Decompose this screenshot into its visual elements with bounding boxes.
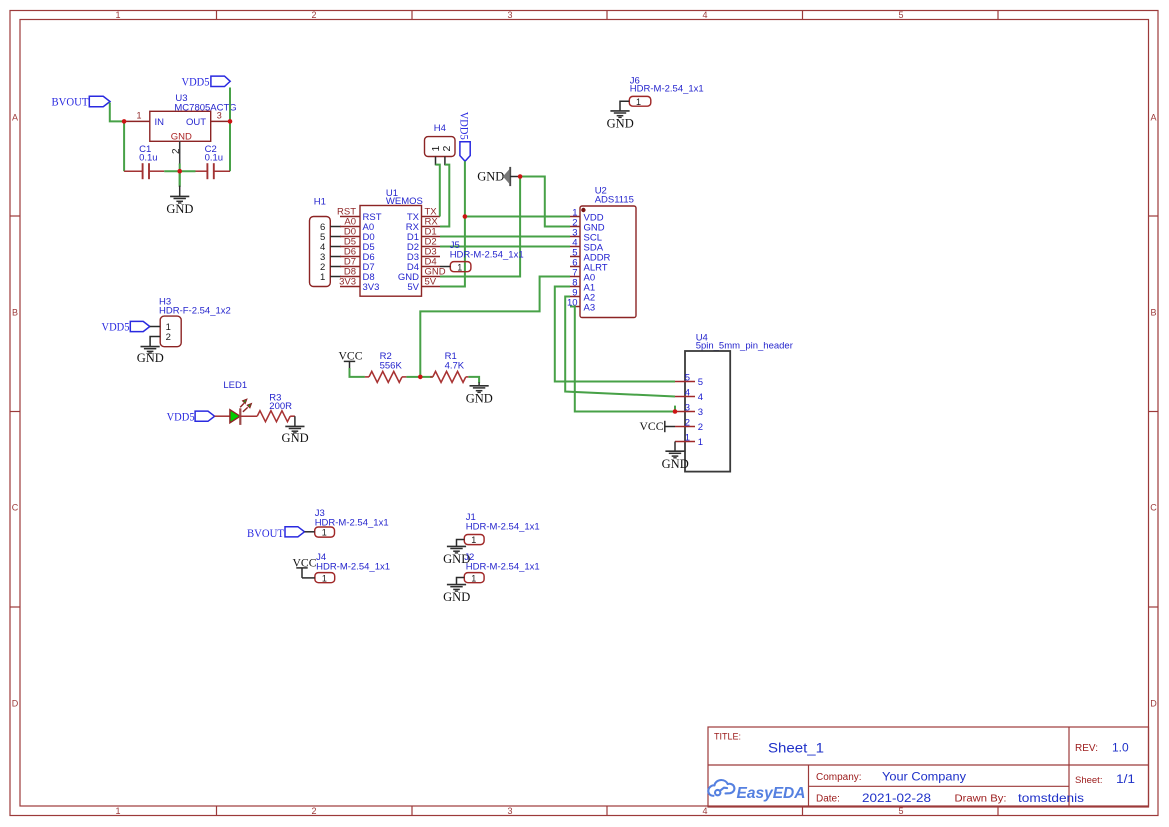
wire VDD5 flag down to U3.OUT and C2 xyxy=(229,88,231,172)
svg-text:Sheet:: Sheet: xyxy=(1075,775,1102,786)
svg-text:HDR-M-2.54_1x1: HDR-M-2.54_1x1 xyxy=(450,250,524,261)
H1 pin 3 xyxy=(320,252,341,263)
header J5 xyxy=(450,240,524,272)
svg-text:HDR-M-2.54_1x1: HDR-M-2.54_1x1 xyxy=(466,522,540,533)
svg-text:Sheet_1: Sheet_1 xyxy=(768,741,824,756)
svg-text:3V3: 3V3 xyxy=(363,282,380,293)
svg-text:IN: IN xyxy=(155,117,165,128)
svg-text:0.1u: 0.1u xyxy=(205,152,224,163)
junction node U4.3 xyxy=(673,409,678,414)
H1 pin 6 xyxy=(320,222,341,233)
svg-text:D: D xyxy=(12,699,19,709)
svg-text:1.0: 1.0 xyxy=(1112,740,1129,754)
wire rail down to GND flag xyxy=(179,171,181,196)
svg-text:4: 4 xyxy=(698,392,703,403)
junction node R1/R2/A0 xyxy=(418,375,423,380)
U2 pin stubs xyxy=(570,217,580,307)
wire U1.D1 to U2.SCL xyxy=(440,236,570,238)
junction node BVOUT/U3.IN xyxy=(122,119,127,124)
wire U3 pin2 to ground rail xyxy=(179,164,181,186)
svg-text:GND: GND xyxy=(607,116,634,130)
svg-text:VDD5: VDD5 xyxy=(458,112,472,140)
net flag BVOUT (U3 input) xyxy=(52,95,111,109)
wire VCC flag to J4.1 xyxy=(302,577,315,579)
header J6 xyxy=(629,76,703,107)
svg-text:2: 2 xyxy=(441,146,453,152)
junction node GND flag xyxy=(518,174,523,179)
module U1 WEMOS xyxy=(360,188,423,296)
svg-text:1: 1 xyxy=(685,432,690,443)
svg-text:2: 2 xyxy=(311,806,316,816)
svg-text:HDR-M-2.54_1x1: HDR-M-2.54_1x1 xyxy=(630,84,704,95)
header H4 xyxy=(425,123,456,156)
wire BVOUT flag to J3.1 xyxy=(305,531,315,533)
svg-text:Date:: Date: xyxy=(816,793,840,804)
svg-text:A3: A3 xyxy=(584,302,596,313)
net flag VCC (R2) xyxy=(339,348,363,369)
svg-text:1: 1 xyxy=(320,272,325,283)
wire H4.1 to U1.TX xyxy=(436,165,440,217)
net flag BVOUT (J3) xyxy=(247,526,305,540)
wire VDD5 flag down through junction to U1.5V xyxy=(440,161,465,286)
ground GND (U3/C1/C2) xyxy=(170,196,189,203)
ground GND (J6) xyxy=(610,111,629,118)
ground GND (J2) xyxy=(447,585,466,592)
wire H3.2 to GND xyxy=(150,337,160,347)
wire U2.A0 to R divider node xyxy=(420,277,570,377)
wire J6.1 to GND xyxy=(620,101,629,111)
wire C1 to GND junction xyxy=(164,170,195,172)
svg-text:A: A xyxy=(1150,113,1156,123)
net flag VDD5 (LED1) xyxy=(167,409,215,423)
svg-text:4: 4 xyxy=(702,806,707,816)
wire R2 to node xyxy=(406,376,420,378)
svg-text:1: 1 xyxy=(115,10,120,20)
wire VCC to R2 xyxy=(350,368,365,377)
wire GND flag to U1.GND xyxy=(440,177,520,277)
wire U1.D2 to U2.SDA xyxy=(440,246,570,248)
header H3 xyxy=(159,297,231,347)
U1 left pin number labels xyxy=(337,206,356,287)
svg-text:1: 1 xyxy=(322,528,327,538)
svg-text:4: 4 xyxy=(685,387,690,398)
svg-text:3: 3 xyxy=(685,402,690,413)
svg-text:1: 1 xyxy=(636,97,641,107)
svg-text:C: C xyxy=(1150,503,1157,513)
resistor R1 4.7K xyxy=(430,351,468,382)
svg-text:D: D xyxy=(1150,699,1157,709)
wire U1.D4 to J5.1 xyxy=(440,266,450,268)
svg-text:H1: H1 xyxy=(314,196,326,207)
U1 right pin number labels xyxy=(425,206,446,287)
net flag VDD5 (vertical, top) xyxy=(458,112,472,162)
H4 pin 2 xyxy=(441,146,453,166)
LED1 anode lead xyxy=(215,415,230,417)
svg-text:GND: GND xyxy=(137,351,164,365)
svg-text:2: 2 xyxy=(311,10,316,20)
svg-text:GND: GND xyxy=(662,457,689,471)
wire J2.1 to GND xyxy=(457,578,465,585)
svg-text:1: 1 xyxy=(136,111,141,121)
capacitor C1 0.1u xyxy=(124,144,164,179)
resistor R2 556K xyxy=(365,351,407,382)
svg-text:VCC: VCC xyxy=(640,419,664,433)
junction node U3.OUT/VDD5 xyxy=(228,119,233,124)
wire BVOUT node down to C1 xyxy=(123,121,125,171)
svg-text:BVOUT: BVOUT xyxy=(247,526,285,540)
svg-text:5pin_5mm_pin_header: 5pin_5mm_pin_header xyxy=(696,340,793,351)
svg-text:1: 1 xyxy=(471,573,476,583)
svg-text:HDR-M-2.54_1x1: HDR-M-2.54_1x1 xyxy=(316,561,390,572)
svg-text:GND: GND xyxy=(443,590,470,604)
header J3 xyxy=(315,508,389,538)
svg-text:2: 2 xyxy=(171,148,182,154)
U3 pin 1 xyxy=(124,111,150,122)
svg-text:HDR-M-2.54_1x1: HDR-M-2.54_1x1 xyxy=(466,561,540,572)
svg-text:2: 2 xyxy=(166,332,171,343)
net flag VCC (J4) xyxy=(293,555,317,578)
U1 left pin stubs xyxy=(340,217,360,287)
svg-text:C: C xyxy=(12,503,19,513)
ground GND (R1) xyxy=(470,386,489,393)
wire GND flag to U2.GND xyxy=(520,177,570,227)
header J2 xyxy=(464,552,539,584)
svg-text:VCC: VCC xyxy=(339,348,363,362)
H1 pin 4 xyxy=(320,242,341,253)
IC U2 ADS1115 xyxy=(580,185,636,317)
ground GND (J1) xyxy=(447,546,466,553)
U3 pin 3 xyxy=(211,111,230,122)
svg-text:1: 1 xyxy=(115,806,120,816)
wire U4.1 to GND xyxy=(674,442,676,452)
resistor R3 200R xyxy=(257,392,295,421)
svg-text:4: 4 xyxy=(702,10,707,20)
header J4 xyxy=(315,552,390,584)
svg-text:VDD5: VDD5 xyxy=(167,409,195,423)
H1 pin 1 xyxy=(320,272,341,283)
wire VDD5 junction to U2.VDD xyxy=(465,216,570,218)
regulator U3 MC7805ACTG xyxy=(150,93,237,142)
header J1 xyxy=(464,512,539,545)
svg-text:GND: GND xyxy=(171,132,192,143)
ground GND (R3) xyxy=(285,426,304,433)
H4 pin 1 xyxy=(430,146,442,166)
svg-text:1: 1 xyxy=(698,437,703,448)
U1 left pin names xyxy=(363,212,382,293)
junction node cap ground rail xyxy=(177,169,182,174)
svg-text:3: 3 xyxy=(507,806,512,816)
svg-text:5V: 5V xyxy=(407,282,419,293)
U2 pin names xyxy=(584,212,611,313)
svg-text:3V3: 3V3 xyxy=(339,276,356,287)
wire U2.A1 to U4.5 xyxy=(555,287,675,382)
wire H4.2 to U1.RX xyxy=(440,165,449,227)
svg-text:ADS1115: ADS1115 xyxy=(595,195,634,206)
svg-text:OUT: OUT xyxy=(186,117,206,128)
svg-text:Your Company: Your Company xyxy=(882,770,966,784)
svg-text:GND: GND xyxy=(466,392,493,406)
svg-text:5: 5 xyxy=(698,377,703,388)
svg-text:5: 5 xyxy=(898,806,903,816)
header H1 xyxy=(310,196,331,286)
wire U2.A2 to U4.4 xyxy=(565,297,675,397)
svg-text:HDR-F-2.54_1x2: HDR-F-2.54_1x2 xyxy=(159,306,231,317)
wire J1.1 to GND xyxy=(457,540,465,547)
svg-text:tomstdenis: tomstdenis xyxy=(1018,791,1084,805)
svg-text:B: B xyxy=(12,308,18,318)
header U4 5pin_5mm_pin_header xyxy=(685,332,793,471)
U2 pin number labels xyxy=(567,207,578,308)
svg-text:GND: GND xyxy=(282,431,309,445)
svg-text:2: 2 xyxy=(685,417,690,428)
svg-text:LED1: LED1 xyxy=(223,380,247,391)
ground flag GND (top, sideways) xyxy=(477,167,520,186)
svg-text:556K: 556K xyxy=(380,361,403,372)
U1 right pin stubs xyxy=(422,217,441,287)
svg-text:EasyEDA: EasyEDA xyxy=(737,785,806,802)
wire R1 to GND xyxy=(468,377,479,383)
ground GND (H3.2) xyxy=(141,347,160,354)
net flag VDD5 (U3 output) xyxy=(182,74,231,88)
U3 pin 2 xyxy=(171,141,182,165)
svg-text:5: 5 xyxy=(685,372,690,383)
wire BVOUT flag to node xyxy=(110,103,124,122)
svg-text:1: 1 xyxy=(471,535,476,545)
svg-text:5V: 5V xyxy=(425,276,437,287)
svg-text:GND: GND xyxy=(477,170,504,184)
svg-text:0.1u: 0.1u xyxy=(139,152,158,163)
svg-text:3: 3 xyxy=(698,407,703,418)
svg-text:3: 3 xyxy=(217,111,222,121)
svg-text:TITLE:: TITLE: xyxy=(714,732,741,742)
H1 pin 2 xyxy=(320,262,341,273)
svg-text:5: 5 xyxy=(898,10,903,20)
svg-text:1/1: 1/1 xyxy=(1116,774,1135,786)
net flag VDD5 (H3.1) xyxy=(102,320,150,334)
LED1 symbol xyxy=(230,399,252,425)
H1 pin 5 xyxy=(320,232,341,243)
wire R3 to GND xyxy=(294,416,296,426)
svg-text:Company:: Company: xyxy=(816,772,862,783)
svg-text:A: A xyxy=(12,113,18,123)
capacitor C2 0.1u xyxy=(196,144,231,179)
svg-text:VDD5: VDD5 xyxy=(182,74,210,88)
svg-text:H4: H4 xyxy=(434,123,446,134)
svg-text:1: 1 xyxy=(457,262,462,272)
svg-text:4.7K: 4.7K xyxy=(445,361,465,372)
svg-text:VDD5: VDD5 xyxy=(102,320,130,334)
U4 pin stubs xyxy=(675,382,695,442)
svg-text:REV:: REV: xyxy=(1075,743,1098,754)
svg-text:2: 2 xyxy=(698,422,703,433)
U4 pin names xyxy=(698,377,703,448)
svg-text:GND: GND xyxy=(166,202,193,216)
svg-text:1: 1 xyxy=(322,573,327,583)
wire U2.A3 to U4.3 xyxy=(570,307,675,412)
ground GND (U4.1) xyxy=(665,451,684,458)
svg-text:200R: 200R xyxy=(269,401,292,412)
svg-text:B: B xyxy=(1150,308,1156,318)
svg-text:BVOUT: BVOUT xyxy=(52,95,90,109)
wire stub above U4.3 junction xyxy=(674,406,676,412)
U4 pin number labels xyxy=(685,372,690,443)
net flag VCC (U4.2) xyxy=(640,419,676,433)
LED1 cathode lead xyxy=(240,415,257,417)
U1 right pin names xyxy=(398,212,420,293)
svg-text:Drawn By:: Drawn By: xyxy=(955,793,1007,804)
svg-text:2021-02-28: 2021-02-28 xyxy=(862,791,931,805)
junction node VDD5 xyxy=(463,214,468,219)
svg-text:3: 3 xyxy=(507,10,512,20)
wire VDD5 flag to H3.1 xyxy=(150,326,160,328)
wire node to R1 xyxy=(420,376,433,378)
